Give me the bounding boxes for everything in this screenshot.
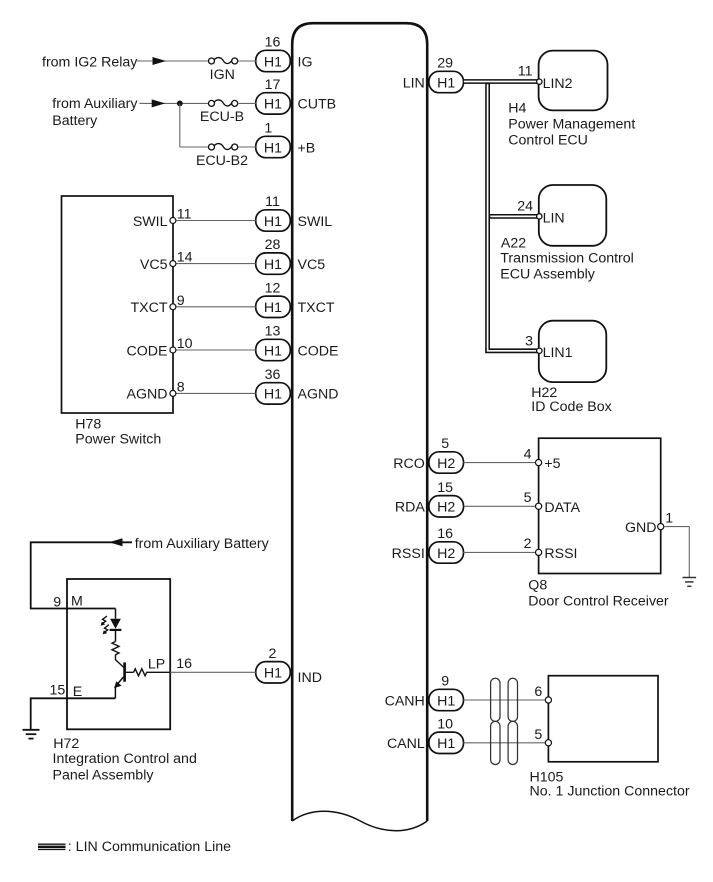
svg-text:16: 16 (265, 35, 281, 51)
svg-text:RSSI: RSSI (392, 546, 425, 562)
svg-text:17: 17 (265, 77, 281, 93)
svg-text:ECU Assembly: ECU Assembly (500, 267, 596, 283)
svg-text:Integration Control and: Integration Control and (53, 751, 197, 767)
svg-text:IG: IG (298, 54, 313, 70)
svg-text:9: 9 (53, 594, 61, 610)
svg-text:TXCT: TXCT (130, 300, 167, 316)
svg-text:+5: +5 (544, 456, 560, 472)
svg-text:CODE: CODE (298, 343, 339, 359)
svg-text:14: 14 (177, 250, 193, 266)
svg-text:5: 5 (524, 490, 532, 506)
svg-text:LIN2: LIN2 (543, 76, 573, 92)
svg-text:from IG2 Relay: from IG2 Relay (42, 54, 138, 70)
svg-text:DATA: DATA (544, 500, 580, 516)
svg-text:3: 3 (525, 333, 533, 349)
svg-text:36: 36 (265, 367, 281, 383)
svg-text:11: 11 (518, 64, 533, 80)
svg-text:A22: A22 (501, 235, 526, 251)
svg-text:2: 2 (524, 536, 532, 552)
svg-text:IND: IND (298, 670, 322, 686)
svg-text:9: 9 (441, 674, 449, 690)
svg-text:H1: H1 (264, 140, 282, 156)
svg-text:Power Switch: Power Switch (75, 432, 161, 448)
svg-text:VC5: VC5 (140, 257, 168, 273)
svg-text:Power Management: Power Management (508, 117, 635, 133)
svg-text:H1: H1 (264, 300, 282, 316)
svg-text:CANH: CANH (385, 693, 425, 709)
svg-text:+B: +B (298, 140, 316, 156)
svg-text:from Auxiliary Battery: from Auxiliary Battery (135, 536, 270, 552)
svg-text:8: 8 (177, 379, 185, 395)
svg-text:H1: H1 (264, 97, 282, 113)
svg-text:16: 16 (437, 526, 453, 542)
svg-text:H1: H1 (264, 214, 282, 230)
svg-text:15: 15 (437, 480, 453, 496)
svg-text:9: 9 (177, 293, 185, 309)
svg-text:LIN: LIN (543, 211, 565, 227)
svg-text:SWIL: SWIL (298, 214, 333, 230)
svg-text:16: 16 (176, 656, 192, 672)
svg-text:H1: H1 (264, 666, 282, 682)
svg-text:Transmission Control: Transmission Control (500, 251, 634, 267)
svg-text:Door Control Receiver: Door Control Receiver (528, 594, 669, 610)
svg-text:AGND: AGND (298, 387, 339, 403)
svg-text:H72: H72 (53, 736, 79, 752)
svg-text:TXCT: TXCT (298, 300, 335, 316)
svg-text:2: 2 (269, 646, 277, 662)
svg-text:RSSI: RSSI (544, 546, 577, 562)
svg-text:6: 6 (534, 684, 542, 700)
svg-text:H78: H78 (75, 417, 101, 433)
svg-text:5: 5 (534, 727, 542, 743)
svg-text:11: 11 (177, 207, 192, 223)
svg-text:28: 28 (265, 237, 281, 253)
svg-text:from Auxiliary: from Auxiliary (52, 96, 138, 112)
svg-text:H4: H4 (508, 101, 526, 117)
svg-text:AGND: AGND (127, 387, 168, 403)
svg-text:H1: H1 (437, 736, 455, 752)
svg-text:H1: H1 (437, 693, 455, 709)
svg-text:11: 11 (265, 194, 280, 210)
svg-text:ECU-B2: ECU-B2 (196, 153, 248, 169)
svg-text:ECU-B: ECU-B (200, 109, 244, 125)
svg-text:Battery: Battery (52, 113, 98, 129)
svg-text:H2: H2 (437, 546, 455, 562)
svg-text:SWIL: SWIL (133, 214, 168, 230)
svg-text:Control ECU: Control ECU (508, 133, 588, 149)
svg-text:LIN: LIN (403, 75, 425, 91)
svg-text:GND: GND (625, 520, 657, 536)
svg-text:CODE: CODE (127, 343, 168, 359)
svg-text:ID Code Box: ID Code Box (531, 399, 611, 415)
svg-text:H1: H1 (264, 387, 282, 403)
svg-text:24: 24 (517, 198, 533, 214)
svg-text:VC5: VC5 (298, 257, 326, 273)
svg-text:CANL: CANL (387, 736, 425, 752)
svg-text:H1: H1 (264, 257, 282, 273)
svg-text:H1: H1 (264, 343, 282, 359)
svg-text:CUTB: CUTB (298, 97, 337, 113)
svg-text:15: 15 (50, 683, 66, 699)
svg-text:4: 4 (524, 446, 532, 462)
svg-text:H1: H1 (264, 54, 282, 70)
svg-text:: LIN Communication Line: : LIN Communication Line (68, 839, 231, 855)
svg-text:10: 10 (437, 716, 453, 732)
svg-text:LP: LP (148, 657, 165, 673)
svg-text:1: 1 (264, 121, 272, 137)
svg-text:5: 5 (441, 436, 449, 452)
svg-text:1: 1 (665, 511, 673, 527)
svg-text:Q8: Q8 (528, 578, 547, 594)
svg-text:M: M (71, 593, 83, 609)
svg-text:10: 10 (177, 336, 193, 352)
svg-text:IGN: IGN (210, 67, 235, 83)
svg-text:LIN1: LIN1 (543, 345, 573, 361)
svg-text:13: 13 (265, 324, 281, 340)
svg-text:H2: H2 (437, 500, 455, 516)
svg-text:H2: H2 (437, 456, 455, 472)
svg-text:12: 12 (265, 280, 281, 296)
svg-text:RCO: RCO (393, 456, 425, 472)
svg-text:Panel Assembly: Panel Assembly (53, 768, 155, 784)
svg-text:RDA: RDA (395, 500, 425, 516)
svg-text:No. 1 Junction Connector: No. 1 Junction Connector (530, 783, 690, 799)
svg-text:29: 29 (437, 56, 453, 72)
svg-text:H1: H1 (437, 75, 455, 91)
